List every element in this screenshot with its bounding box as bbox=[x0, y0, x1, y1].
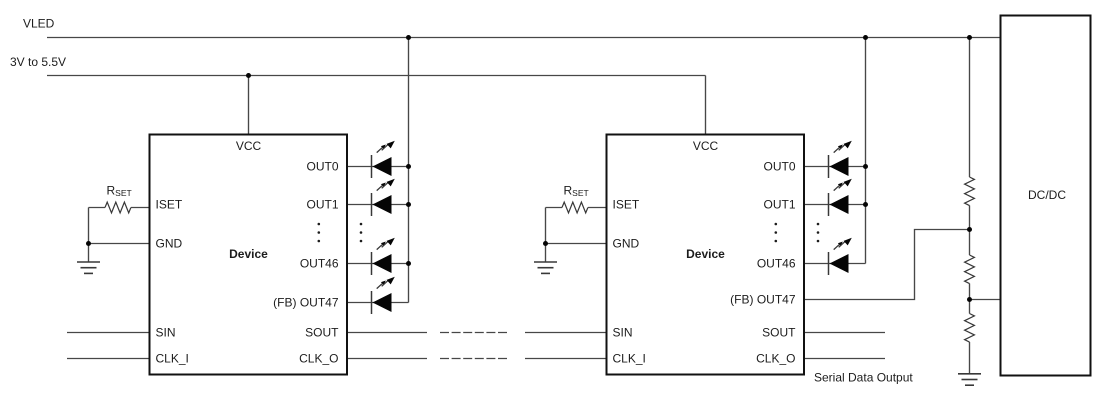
svg-text:SIN: SIN bbox=[613, 326, 633, 340]
svg-text:OUT0: OUT0 bbox=[763, 160, 795, 174]
svg-text:CLK_I: CLK_I bbox=[156, 352, 189, 366]
svg-text:GND: GND bbox=[613, 236, 640, 250]
svg-text:CLK_I: CLK_I bbox=[613, 352, 646, 366]
svg-text:OUT0: OUT0 bbox=[306, 160, 338, 174]
svg-text:SIN: SIN bbox=[156, 326, 176, 340]
svg-text:OUT46: OUT46 bbox=[300, 257, 339, 271]
svg-text:VLED: VLED bbox=[23, 17, 55, 31]
svg-text:RSET: RSET bbox=[564, 184, 589, 199]
svg-text:3V to 5.5V: 3V to 5.5V bbox=[10, 55, 66, 69]
svg-text:(FB) OUT47: (FB) OUT47 bbox=[730, 293, 796, 307]
svg-text:Device: Device bbox=[229, 247, 268, 261]
svg-text:DC/DC: DC/DC bbox=[1028, 188, 1066, 202]
svg-text:CLK_O: CLK_O bbox=[756, 352, 795, 366]
svg-text:RSET: RSET bbox=[107, 184, 132, 199]
svg-text:ISET: ISET bbox=[156, 198, 183, 212]
svg-text:OUT1: OUT1 bbox=[306, 198, 338, 212]
svg-text:VCC: VCC bbox=[236, 139, 262, 153]
svg-text:ISET: ISET bbox=[613, 198, 640, 212]
svg-text:OUT46: OUT46 bbox=[757, 257, 796, 271]
svg-text:SOUT: SOUT bbox=[305, 326, 339, 340]
svg-text:(FB) OUT47: (FB) OUT47 bbox=[273, 296, 339, 310]
svg-text:Device: Device bbox=[686, 247, 725, 261]
svg-text:VCC: VCC bbox=[693, 139, 719, 153]
svg-text:SOUT: SOUT bbox=[762, 326, 796, 340]
svg-text:CLK_O: CLK_O bbox=[299, 352, 338, 366]
svg-text:Serial Data Output: Serial Data Output bbox=[814, 371, 913, 385]
svg-text:OUT1: OUT1 bbox=[763, 198, 795, 212]
svg-text:GND: GND bbox=[156, 236, 183, 250]
